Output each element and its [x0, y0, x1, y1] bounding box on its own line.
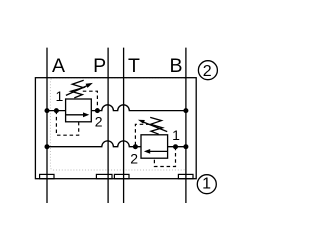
svg-text:1: 1 [172, 127, 180, 143]
svg-text:B: B [169, 55, 182, 77]
svg-text:2: 2 [130, 151, 138, 167]
svg-text:2: 2 [203, 63, 212, 80]
svg-text:A: A [52, 55, 65, 77]
svg-text:2: 2 [95, 114, 103, 130]
svg-text:1: 1 [202, 176, 211, 193]
svg-text:T: T [128, 55, 140, 77]
svg-text:P: P [93, 55, 106, 77]
svg-text:1: 1 [56, 88, 64, 104]
